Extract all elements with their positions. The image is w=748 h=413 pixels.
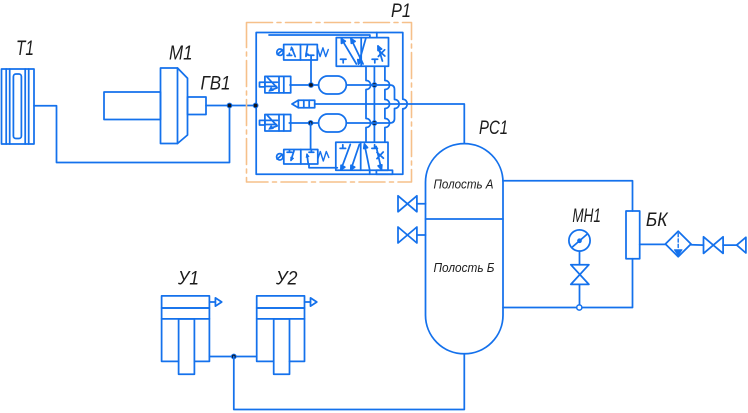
- wire V2 right port to block top: [376, 33, 378, 38]
- node dot row3: [308, 121, 313, 126]
- accumulator A2: [319, 114, 347, 132]
- restrictor F2: [260, 115, 291, 132]
- wire P1 output row to RS1: [315, 104, 465, 144]
- node ring junction: [577, 305, 582, 310]
- node U junction dot: [231, 354, 236, 359]
- wire gauge to valve BV3: [579, 251, 581, 265]
- svg-text:РС1: РС1: [479, 118, 508, 139]
- P1 orange dash-dot boundary: [247, 23, 412, 183]
- valve BV2 (cavity B drain): [398, 227, 426, 243]
- svg-text:У2: У2: [275, 269, 298, 290]
- wire B vertical: [373, 66, 375, 142]
- wire F1 to accumulator A1: [290, 84, 319, 86]
- restrictor F1: [260, 76, 291, 93]
- P1 block outline with hop over output line: [256, 33, 407, 175]
- valve V3 (directional, bottom-right of P1): [336, 142, 393, 174]
- device U2: [257, 296, 317, 374]
- node GV1 junction dot: [227, 103, 232, 108]
- valve BV4 (outlet shutoff): [704, 237, 724, 254]
- wire BK to filter FD: [640, 243, 666, 245]
- exhaust nozzle: [737, 237, 746, 253]
- receiver RS1: [426, 144, 504, 354]
- svg-text:БК: БК: [646, 210, 669, 231]
- device U1: [162, 296, 222, 374]
- wire F2 to accumulator A2: [289, 122, 318, 124]
- node dot B-row1: [372, 83, 377, 88]
- wire C vertical with hops: [385, 66, 390, 142]
- node dot row1: [309, 83, 314, 88]
- svg-text:М1: М1: [169, 43, 193, 65]
- wire V4 up to row3: [310, 123, 312, 150]
- wire V3 to block bottom: [369, 170, 371, 174]
- wire M1 to P1: [206, 105, 256, 107]
- svg-text:У1: У1: [177, 269, 199, 290]
- heat-exchanger T1: [2, 69, 35, 144]
- wire row1-row3 right connector with hop: [346, 85, 399, 123]
- wire V4 bottom to valve V3: [309, 164, 337, 168]
- svg-text:Полость Б: Полость Б: [434, 261, 495, 275]
- wire cavity A outlet to BK: [503, 181, 633, 211]
- svg-text:МН1: МН1: [572, 205, 601, 227]
- motor M1: [104, 68, 206, 144]
- wire BV4 to exhaust: [723, 244, 737, 246]
- pressure gauge MN1: [569, 230, 590, 251]
- svg-text:Полость А: Полость А: [434, 178, 494, 192]
- silencer S1: [292, 100, 315, 107]
- wire U junction to RS1 bottom: [234, 354, 464, 410]
- filter-separator FD: [665, 231, 691, 257]
- svg-text:Р1: Р1: [391, 0, 411, 22]
- valve V2 (directional, top-right of P1): [336, 38, 388, 67]
- wire U1 to U2: [209, 356, 256, 358]
- node P1 inlet dot: [253, 103, 258, 108]
- wire T1 to node GV1: [34, 106, 230, 163]
- svg-text:Т1: Т1: [16, 36, 34, 60]
- valve BV3 (gauge shutoff): [571, 265, 589, 285]
- valve V4 (3/2 pilot, bottom-left of P1): [277, 150, 329, 165]
- wire BV3 down to bottom line: [579, 284, 581, 305]
- throttle block BK: [626, 211, 640, 259]
- wire A vertical with hops: [366, 66, 371, 142]
- node dot B-row3: [372, 121, 377, 126]
- valve V1 (3/2 pilot, top-left of P1): [277, 45, 329, 61]
- wire V1 to row1: [310, 60, 312, 85]
- wire BK lower to bottom line: [503, 259, 633, 308]
- valve BV1 (cavity A drain): [398, 196, 426, 212]
- wire V2 left port to block top: [269, 35, 370, 38]
- svg-text:ГВ1: ГВ1: [201, 74, 231, 95]
- accumulator A1: [319, 76, 347, 94]
- wire FD to valve BV4: [691, 244, 704, 246]
